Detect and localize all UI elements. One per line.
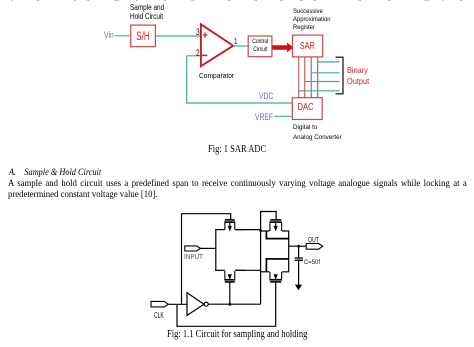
wire M4 body bar	[266, 259, 288, 272]
label CLK	[154, 310, 171, 320]
label Sample and Hold Circuit	[130, 3, 173, 21]
block S/H sample and hold	[131, 25, 156, 47]
arrow control circuit to SAR	[272, 43, 293, 53]
wire inverter output	[208, 303, 260, 305]
wire comparator output to control circuit	[233, 45, 248, 47]
paragraph body line 2	[8, 189, 162, 199]
junction dot inverter output at M2 gate	[228, 303, 231, 306]
paragraph body line 1	[8, 178, 467, 188]
port INPUT	[185, 246, 201, 251]
caption figure 1	[208, 144, 281, 155]
wire bottom lead M4 left	[261, 271, 270, 273]
wire binary output bit 3	[318, 61, 340, 63]
wire top lead M3 left	[261, 230, 270, 232]
wire top rail CLK to M1 gate	[182, 214, 231, 220]
junction dot OUT capacitor tap	[297, 245, 300, 248]
label Digital to Analog Converter	[293, 123, 346, 142]
bracket binary output	[336, 57, 344, 94]
transistor M4 NMOS bottom-right	[269, 272, 282, 283]
wire binary output bit 0	[299, 90, 340, 92]
label VREF	[255, 111, 280, 122]
inverter U2	[187, 293, 204, 316]
pin 1	[234, 37, 238, 46]
wire capacitor to ground	[298, 260, 300, 285]
wire Vin to S/H	[115, 35, 131, 37]
label Successive Approximation Register	[293, 8, 334, 32]
wire CLK upper left rail	[181, 214, 183, 305]
pin 3	[196, 27, 201, 38]
port OUT	[306, 243, 322, 249]
wire INPUT to transmission gate	[201, 247, 216, 249]
wire transmission gate left terminal	[215, 230, 217, 271]
transistor M2 NMOS bottom-left	[215, 270, 245, 283]
port CLK	[151, 301, 168, 307]
bus wire SAR to DAC line 1	[298, 57, 300, 98]
bus wire SAR to DAC line 3	[310, 57, 312, 98]
wire CLK to inverter	[168, 303, 187, 305]
heading A. Sample & Hold Circuit	[9, 167, 109, 177]
ground symbol	[295, 285, 302, 291]
label Binary Output	[347, 65, 372, 87]
label S/H	[131, 29, 156, 43]
bus wire SAR to DAC line 2	[304, 57, 306, 98]
label INPUT	[184, 252, 206, 261]
block DAC digital to analog converter	[292, 98, 322, 120]
capacitor C plates	[295, 257, 303, 258]
label Vin	[104, 29, 117, 40]
wire capacitor stem top	[298, 246, 300, 257]
wire M2 gate lead	[229, 283, 231, 305]
wire CLK lower left rail	[177, 283, 276, 327]
bus wire SAR to DAC line 4	[317, 57, 319, 98]
comparator plus input mark	[203, 32, 208, 38]
transistor M1 PMOS top-left	[215, 219, 245, 231]
block Control Circuit	[248, 36, 272, 57]
label C=50f	[304, 259, 322, 266]
label DAC	[290, 102, 320, 113]
wire binary output bit 1	[305, 81, 340, 83]
label OUT	[308, 235, 323, 244]
wire comparator inverting input feedback from DAC	[187, 56, 293, 103]
wire binary output bit 2	[311, 72, 339, 74]
label Comparator	[199, 71, 238, 80]
label Control Circuit	[248, 38, 272, 53]
label VDC	[259, 91, 279, 102]
wire S/H to comparator	[155, 35, 201, 37]
block SAR successive approximation register	[293, 35, 323, 57]
pin 2	[196, 48, 201, 59]
transistor M3 PMOS top-right	[269, 219, 282, 231]
comparator minus input mark	[202, 55, 207, 57]
wire right terminal vertical to OUT	[282, 231, 289, 272]
wire M3 body bar	[266, 231, 288, 239]
label SAR	[293, 41, 323, 52]
caption figure 2	[167, 329, 338, 340]
wire bottom leads M2 to M4	[235, 269, 260, 271]
cut-off top text line	[8, 0, 466, 1]
op-amp U1 comparator	[201, 24, 233, 66]
inverter bubble	[204, 302, 208, 306]
wire inverter output to M3 gate loop	[261, 212, 277, 305]
wire top leads M1 to M3	[235, 229, 260, 231]
wire VREF to DAC	[274, 115, 292, 117]
junction dot riser top lead	[260, 229, 262, 231]
wire OUT node	[289, 245, 307, 247]
